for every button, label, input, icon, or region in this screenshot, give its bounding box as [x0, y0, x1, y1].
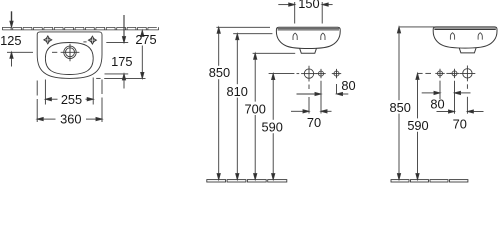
side tap hole star left — [44, 36, 52, 44]
extension below small connection 1 (middle) — [320, 81, 322, 114]
inner bowl (plan) — [45, 43, 93, 75]
water connection small 2 (right) — [450, 69, 459, 78]
dimension 590 (right) — [416, 73, 419, 179]
extension line level 850 — [216, 26, 270, 28]
extension line basin front (275 lower bound) — [96, 77, 100, 79]
svg-text:125: 125 — [0, 33, 21, 48]
dimension 80 (right) — [422, 91, 471, 94]
extension line level 810 — [233, 33, 272, 35]
svg-text:590: 590 — [407, 118, 428, 133]
dimension 70 (right) — [437, 110, 484, 113]
side tap hole star right — [88, 36, 96, 44]
dimension 150 (fixing hole spacing) — [278, 2, 332, 24]
drain centerline below big connection (middle) — [308, 85, 310, 90]
dimension 810 (middle) — [236, 34, 239, 180]
extension line level 590 — [269, 73, 295, 75]
floor bar (middle) — [207, 180, 287, 182]
dimension 255 (bowl width) — [45, 78, 93, 105]
fixing hole symbol left (right view) — [450, 33, 454, 40]
water connection small 2 (middle) — [332, 69, 341, 78]
washbasin outer rim (plan) — [37, 32, 102, 79]
dimension 275 (wall to basin front) — [141, 30, 144, 78]
wall section bar (plan) — [2, 27, 158, 30]
svg-text:80: 80 — [341, 78, 355, 93]
drain outlet (right view) — [459, 48, 476, 53]
extension below small connection 2 (right) — [454, 81, 456, 114]
dimension 590 (middle) — [272, 74, 275, 180]
svg-text:70: 70 — [307, 115, 321, 130]
water connection big (middle) — [301, 66, 317, 82]
extension line bowl top (175 upper bound) — [106, 42, 128, 44]
dimension 700 (middle) — [254, 53, 257, 179]
tap hole centerlines — [61, 51, 80, 53]
extension line level 850 (right) — [399, 26, 435, 28]
centerline dash between connections (right) — [446, 72, 451, 74]
svg-text:175: 175 — [111, 54, 132, 69]
svg-text:810: 810 — [227, 84, 248, 99]
dimension 70 (middle) — [291, 110, 332, 113]
svg-text:850: 850 — [209, 65, 230, 80]
extension line level 590 (right) — [418, 72, 423, 74]
svg-text:700: 700 — [245, 101, 266, 116]
floor bar (right) — [391, 180, 468, 182]
drain centerline below big connection (right) — [466, 84, 468, 89]
dimension 850 (rim height, middle) — [217, 27, 220, 179]
water connection small 1 (right) — [435, 69, 444, 78]
washbasin profile (front view) — [276, 27, 340, 48]
water connection small 1 (middle) — [316, 69, 325, 78]
extension below small connection 1 (right) — [439, 81, 441, 99]
drain outlet (front view) — [300, 48, 317, 53]
svg-text:590: 590 — [262, 120, 283, 135]
dimension 850 (right) — [397, 27, 400, 180]
svg-text:360: 360 — [60, 112, 81, 127]
extension line level 700 — [253, 52, 296, 54]
extension below small connection 2 (middle) — [336, 84, 338, 94]
fixing hole symbol left (front) — [293, 33, 297, 40]
svg-text:150: 150 — [298, 0, 319, 11]
svg-text:80: 80 — [430, 96, 444, 111]
tap hole circles (plan) — [64, 46, 76, 58]
fixing hole symbol right (right view) — [478, 33, 482, 40]
centerline tick left of right star — [83, 41, 86, 43]
svg-text:275: 275 — [135, 32, 156, 47]
dimension 80 (middle) — [297, 92, 349, 95]
dimension 175 (bowl depth) — [122, 15, 125, 89]
svg-text:70: 70 — [453, 117, 467, 132]
extension line bowl bottom (175 lower bound) — [105, 73, 129, 75]
fixing hole symbol right (front) — [321, 33, 325, 40]
dimension 360 (basin width) — [37, 80, 102, 123]
water connection big (right) — [460, 66, 476, 82]
washbasin profile (right view) — [433, 27, 497, 48]
dimension 125 (wall to tap centerline) — [7, 11, 33, 66]
svg-text:850: 850 — [390, 100, 411, 115]
svg-text:255: 255 — [61, 92, 82, 107]
